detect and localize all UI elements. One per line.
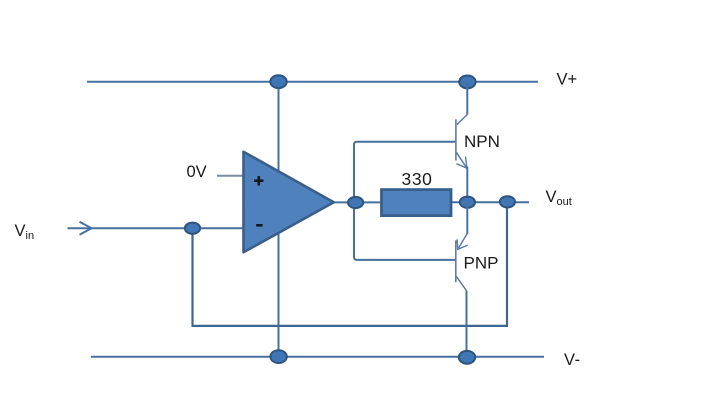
node Vout left <box>460 197 475 208</box>
node top rail left <box>270 75 286 88</box>
svg-text:PNP: PNP <box>464 254 499 273</box>
svg-text:0V: 0V <box>187 163 207 181</box>
op-amp U1 <box>244 152 334 253</box>
wire resistor to Vout <box>451 201 530 203</box>
node Vin junction <box>185 223 200 234</box>
svg-text:330: 330 <box>402 169 433 189</box>
wire feedback from Vin node to Vout node <box>193 202 508 326</box>
wire op-amp supply vertical <box>278 82 280 357</box>
resistor 330 <box>382 190 452 216</box>
node V- rail left <box>270 350 286 363</box>
transistor NPN <box>456 82 467 202</box>
wire op-amp output to resistor <box>334 201 382 203</box>
wire base box: op-amp output to NPN and PNP bases <box>354 142 456 260</box>
wire Vin input with arrow <box>68 222 244 235</box>
node op-amp output <box>348 197 363 208</box>
transistor PNP <box>456 202 468 357</box>
node top rail right <box>459 76 475 89</box>
node Vout feedback tap <box>500 196 515 207</box>
svg-text:Vin: Vin <box>15 222 35 242</box>
node V- rail right <box>459 351 475 364</box>
wire V- bottom rail <box>91 356 544 358</box>
svg-text:V+: V+ <box>557 71 578 89</box>
wire V+ top rail <box>87 81 538 83</box>
svg-text:Vout: Vout <box>546 188 572 208</box>
svg-text:NPN: NPN <box>464 132 500 151</box>
svg-text:V-: V- <box>564 351 580 369</box>
wire 0V stub to + input <box>217 175 244 177</box>
